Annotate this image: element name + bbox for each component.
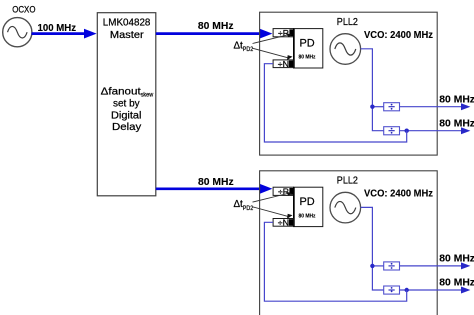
svg-text:80 MHz: 80 MHz — [299, 55, 316, 61]
svg-text:80 MHz: 80 MHz — [198, 21, 234, 32]
wire branch to divider A #2 — [372, 265, 383, 267]
svg-text:LMK04828: LMK04828 — [103, 18, 151, 29]
output divider A2 (÷) — [384, 262, 400, 270]
phase detector PD #1 — [294, 29, 323, 68]
svg-text:÷N: ÷N — [278, 217, 289, 227]
svg-text:80 MHz: 80 MHz — [198, 177, 234, 188]
wire output A1 with arrow — [400, 103, 471, 110]
node junction A #2 — [370, 264, 374, 268]
wire VCO output to dividers #1 — [361, 49, 384, 131]
svg-text:80 MHz: 80 MHz — [439, 253, 474, 264]
wire output A2 with arrow — [400, 262, 471, 269]
wire output B1 with arrow — [400, 127, 471, 134]
svg-text:Delay: Delay — [112, 122, 141, 133]
node junction B1 — [405, 129, 409, 133]
block PLL2 #2 outer box — [260, 171, 438, 315]
block LMK04828 Master — [97, 13, 156, 196]
svg-text:VCO: 2400 MHz: VCO: 2400 MHz — [364, 189, 433, 200]
svg-text:100 MHz: 100 MHz — [38, 23, 77, 34]
svg-text:ΔtPD2: ΔtPD2 — [234, 199, 254, 212]
svg-text:PD: PD — [300, 37, 315, 49]
divider N2 (÷N) — [273, 217, 293, 227]
VCO oscillator #2 — [330, 192, 361, 223]
block PLL2 #1 outer box — [260, 12, 438, 155]
svg-text:OCXO: OCXO — [12, 4, 35, 15]
wire feedback to ÷N #1 — [264, 64, 406, 142]
wire branch to divider A #1 — [372, 106, 383, 108]
node junction B2 — [405, 288, 409, 292]
svg-text:set by: set by — [113, 99, 140, 110]
wire output B2 with arrow — [400, 287, 471, 294]
annotation arrow to ÷N #2 — [253, 207, 293, 219]
svg-text:÷N: ÷N — [278, 59, 289, 69]
node junction A #1 — [370, 105, 374, 109]
output divider A1 (÷) — [384, 103, 400, 111]
phase detector PD #2 — [294, 187, 323, 226]
svg-text:80 MHz: 80 MHz — [439, 118, 474, 129]
divider R2 (÷R) — [273, 187, 293, 197]
wire VCO output to dividers #2 — [361, 207, 384, 290]
annotation arrow to ÷R #2 — [253, 192, 293, 202]
wire 100 MHz arrow from OCXO to LMK04828 — [32, 29, 97, 39]
svg-text:Digital: Digital — [111, 111, 141, 122]
svg-text:PLL2: PLL2 — [337, 17, 358, 28]
VCO oscillator #1 — [330, 34, 361, 65]
svg-text:80 MHz: 80 MHz — [299, 213, 316, 219]
annotation arrow to ÷R #1 — [253, 33, 293, 43]
divider N1 (÷N) — [273, 59, 293, 69]
output divider B2 (÷) — [384, 286, 400, 294]
divider R1 (÷R) — [273, 28, 293, 38]
oscillator OCXO — [3, 18, 32, 47]
svg-text:PLL2: PLL2 — [337, 176, 358, 187]
svg-text:80 MHz: 80 MHz — [439, 278, 474, 289]
wire feedback to ÷N #2 — [264, 222, 406, 301]
annotation arrow to ÷N #1 — [253, 48, 293, 60]
svg-text:Master: Master — [110, 30, 145, 41]
svg-text:VCO: 2400 MHz: VCO: 2400 MHz — [364, 30, 433, 41]
svg-text:PD: PD — [300, 196, 315, 208]
svg-text:ΔtPD2: ΔtPD2 — [234, 41, 254, 54]
wire 80 MHz arrow from LMK04828 to PLL2 #2 — [156, 184, 273, 194]
wire 80 MHz arrow from LMK04828 to PLL2 #1 — [156, 29, 273, 39]
svg-text:80 MHz: 80 MHz — [439, 95, 474, 106]
output divider B1 (÷) — [384, 127, 400, 135]
